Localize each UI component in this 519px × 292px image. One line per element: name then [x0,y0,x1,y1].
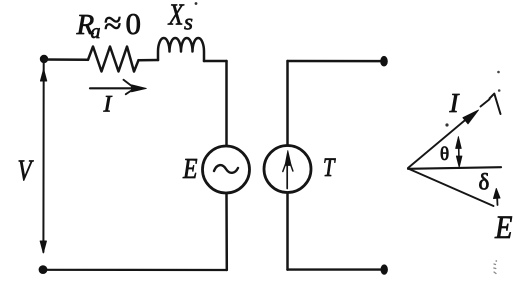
wire inductor to E-branch corner [204,60,227,63]
wire E-branch bottom vertical [225,193,228,270]
angle theta arrow [456,137,462,168]
ac source E circle [203,146,250,193]
angle delta arrow [494,189,501,206]
phasor horizontal axis [408,167,501,169]
wire resistor to inductor [139,59,159,62]
resistor Ra [88,47,139,72]
inductor Xs [158,38,204,61]
svg-text:T: T [323,153,336,182]
ac source tilde [214,165,238,173]
phasor I line [408,116,470,168]
wire T-branch top vertical [286,61,289,146]
svg-text:θ: θ [440,144,449,165]
terminal dot bottom-right [381,264,388,274]
wire top-left horizontal [44,58,88,61]
current source T circle [264,146,311,193]
svg-text:E: E [494,210,512,246]
svg-text:I: I [449,88,461,118]
wire T-branch bottom vertical [286,193,289,270]
phasor I dashed continuation [481,99,490,106]
current arrow I [90,80,146,94]
svg-text:I: I [103,92,113,118]
stray dot above Xs [195,2,198,5]
terminal dot top-right [380,56,388,67]
phasor I arrowhead [463,110,479,124]
wire T-branch bottom horizontal [288,268,384,270]
svg-text:V: V [18,154,35,187]
wire T-branch top horizontal [288,60,383,63]
svg-text:Xs: Xs [167,0,193,35]
svg-text:E: E [182,153,198,185]
stray dot near phasor I [445,123,448,126]
partial arrowhead mark top-right [490,94,501,114]
stray dots top-right [497,71,500,74]
svg-text:Ra≈0: Ra≈0 [76,5,142,44]
voltage wire left with V arrows [40,63,47,253]
phasor E line [408,169,494,207]
current source arrow [283,151,293,189]
wire E-branch top vertical [225,61,228,146]
svg-text:δ: δ [479,170,490,195]
wire bottom horizontal [43,269,227,271]
node top-left [40,55,48,63]
node bottom-left [39,265,48,274]
stray mark bottom-right [494,260,497,273]
